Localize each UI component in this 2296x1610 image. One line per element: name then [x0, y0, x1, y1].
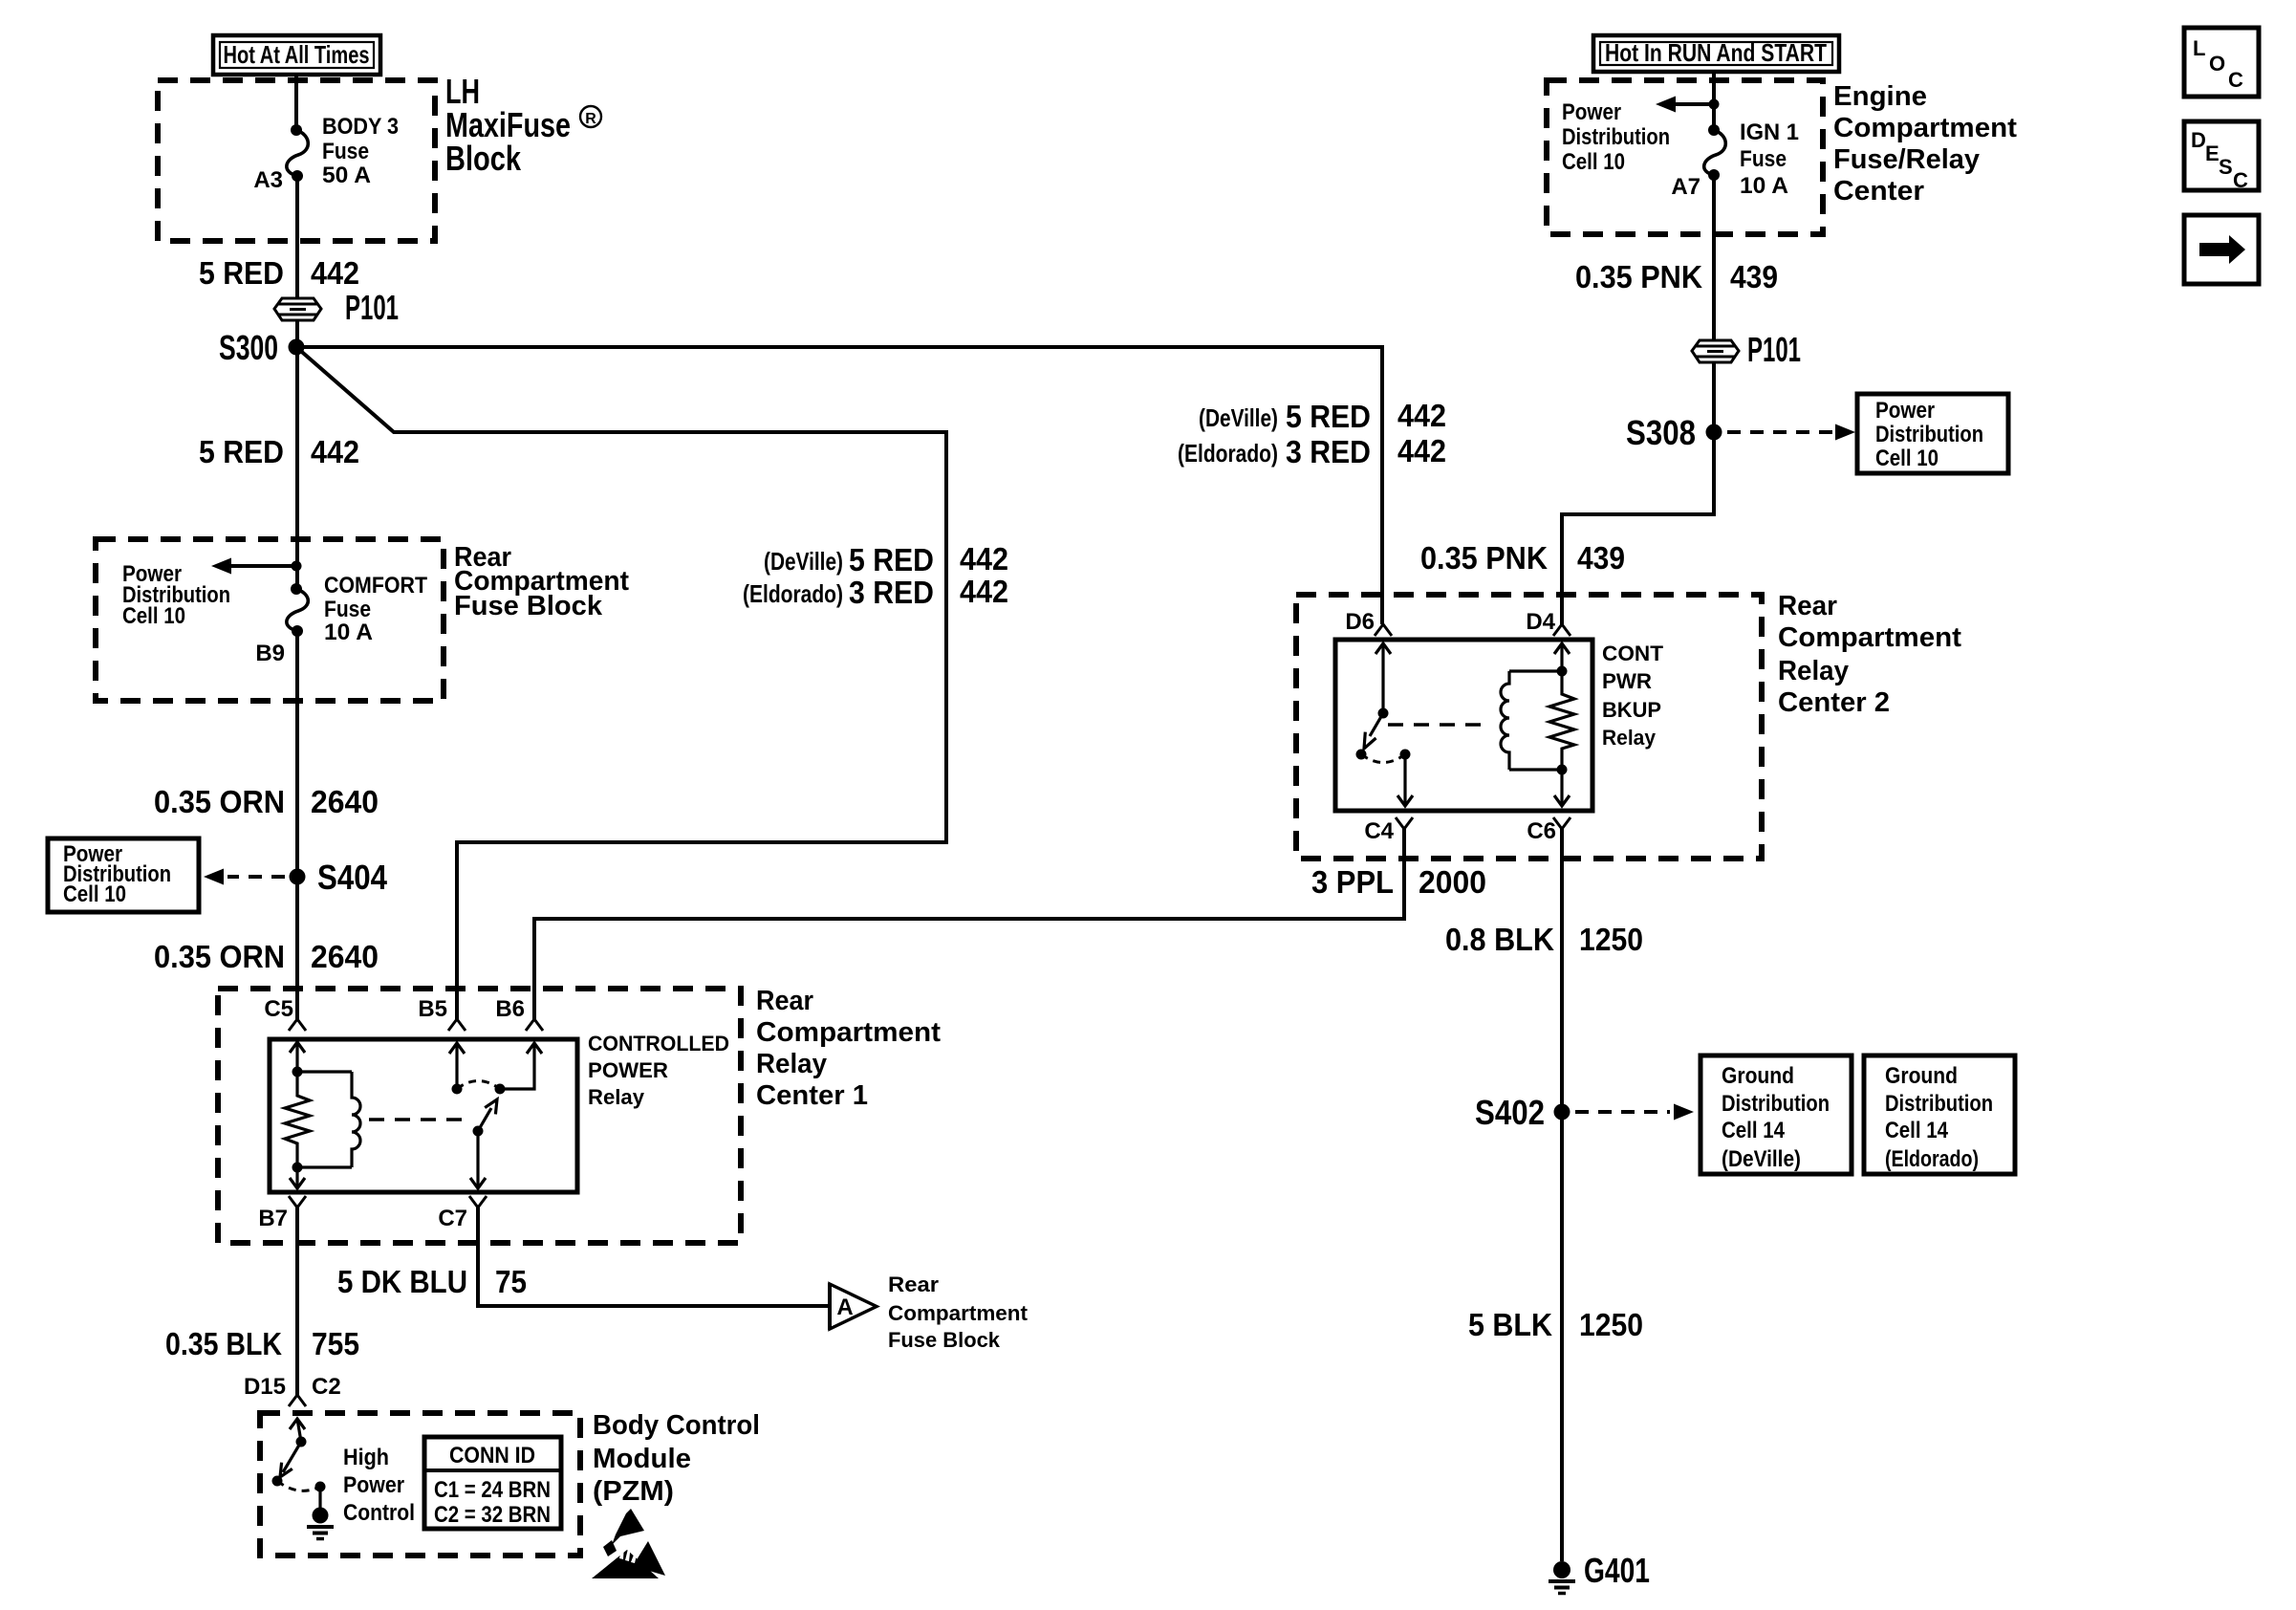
- wire fuse A3 to P101: [295, 176, 299, 298]
- svg-text:Engine: Engine: [1833, 81, 1927, 112]
- svg-text:442: 442: [960, 574, 1008, 609]
- wire P101 through S308 down and left to D4: [1562, 362, 1714, 624]
- dashed arrow S308 to Power Distribution box: [1727, 424, 1855, 441]
- svg-text:2640: 2640: [311, 784, 379, 819]
- node junction at fuse block feed: [292, 561, 302, 572]
- wire label (Eldorado) 3 RED 442 at D6 riser: [1178, 433, 1446, 469]
- corner box DESC: [2184, 121, 2259, 192]
- wire A7 down to P101: [1712, 175, 1716, 339]
- svg-text:3 RED: 3 RED: [1286, 434, 1371, 469]
- svg-text:Ground: Ground: [1722, 1063, 1794, 1089]
- svg-text:C4: C4: [1364, 818, 1394, 844]
- svg-text:0.35 ORN: 0.35 ORN: [154, 784, 285, 819]
- svg-text:3 RED: 3 RED: [849, 575, 934, 610]
- corner box forward arrow: [2184, 215, 2259, 284]
- label CONT PWR BKUP Relay: [1602, 642, 1664, 750]
- svg-text:Fuse Block: Fuse Block: [454, 591, 603, 621]
- wire from Hot In RUN And START into Engine Compartment center: [1712, 72, 1716, 130]
- svg-text:(DeVille): (DeVille): [764, 547, 843, 576]
- svg-text:CONT: CONT: [1602, 642, 1664, 665]
- svg-text:C1 = 24 BRN: C1 = 24 BRN: [434, 1477, 551, 1503]
- label Rear Compartment Relay Center 1: [756, 986, 941, 1111]
- svg-text:C5: C5: [264, 996, 293, 1022]
- relay K2 dashed throw arc: [1361, 754, 1405, 763]
- svg-text:High: High: [343, 1445, 389, 1470]
- relay K2 D4 leg arrow up: [1554, 643, 1570, 671]
- pin C6: [1527, 817, 1570, 844]
- svg-text:Relay: Relay: [1602, 726, 1657, 750]
- svg-text:Fuse: Fuse: [324, 597, 371, 622]
- relay K1 bottom rail: [297, 1165, 352, 1168]
- wire arrow to Power Distribution Cell 10 (in fuse block): [211, 558, 296, 575]
- label Power Distribution Cell 10 (in fuse block): [122, 561, 230, 629]
- relay K1 coil bottom junction: [292, 1163, 303, 1173]
- svg-text:442: 442: [311, 434, 359, 469]
- wire P101 to S300 and down to COMFORT fuse: [295, 320, 299, 589]
- svg-text:Compartment: Compartment: [1778, 622, 1961, 653]
- dashed arrow S404 to Power Distribution box: [204, 869, 285, 885]
- label LH MaxiFuse Block: [445, 72, 601, 178]
- fuse COMFORT 10A: [287, 583, 308, 637]
- BCM input arrow up at D15: [290, 1419, 307, 1447]
- svg-text:D4: D4: [1526, 609, 1555, 635]
- svg-text:5 RED: 5 RED: [849, 542, 934, 577]
- svg-text:442: 442: [1397, 398, 1446, 433]
- ESD sensitive symbol: [592, 1509, 665, 1578]
- svg-text:442: 442: [960, 541, 1008, 577]
- value label IGN 1 Fuse 10 A: [1740, 120, 1799, 199]
- label Rear Compartment Relay Center 2: [1778, 591, 1961, 718]
- svg-text:Center 1: Center 1: [756, 1080, 868, 1111]
- svg-text:Rear: Rear: [756, 986, 813, 1016]
- Body Control Module dashed box: [260, 1413, 580, 1556]
- svg-text:A7: A7: [1671, 174, 1700, 200]
- wire label 5 RED 442 (lower): [199, 434, 359, 469]
- svg-text:2640: 2640: [311, 939, 379, 974]
- label High Power Control: [343, 1445, 415, 1526]
- off-page triangle A to Rear Compartment Fuse Block: [830, 1283, 877, 1330]
- svg-text:Distribution: Distribution: [1562, 124, 1670, 150]
- svg-text:Distribution: Distribution: [1875, 422, 1983, 447]
- pin D4: [1526, 609, 1570, 636]
- svg-text:IGN 1: IGN 1: [1740, 120, 1799, 145]
- box Ground Distribution Cell 14 (DeVille): [1700, 1055, 1852, 1174]
- pin C7: [438, 1196, 487, 1231]
- svg-text:5 RED: 5 RED: [1286, 399, 1371, 434]
- svg-text:(PZM): (PZM): [593, 1476, 674, 1507]
- svg-text:A3: A3: [253, 167, 283, 193]
- ground G401: [1549, 1551, 1650, 1594]
- svg-text:C: C: [2228, 68, 2243, 92]
- relay K2 C6 leg arrow down: [1554, 770, 1570, 806]
- relay K2 switched leg arrow down to C4: [1397, 750, 1413, 807]
- BCM switched leg to internal ground: [315, 1482, 326, 1510]
- svg-text:Distribution: Distribution: [1885, 1091, 1993, 1117]
- wire label 0.35 PNK 439 (lower): [1420, 540, 1625, 576]
- svg-text:0.35 PNK: 0.35 PNK: [1575, 259, 1702, 294]
- svg-text:Compartment: Compartment: [888, 1301, 1029, 1325]
- svg-text:5 DK BLU: 5 DK BLU: [337, 1264, 467, 1299]
- svg-text:Center: Center: [1833, 176, 1924, 207]
- svg-text:(DeVille): (DeVille): [1722, 1146, 1801, 1172]
- LH MaxiFuse Block dashed box: [158, 80, 435, 241]
- svg-text:Relay: Relay: [756, 1049, 827, 1079]
- svg-text:B6: B6: [495, 996, 525, 1022]
- svg-text:E: E: [2205, 141, 2220, 165]
- relay K2 dashed actuation link: [1388, 723, 1491, 727]
- svg-text:C: C: [2233, 168, 2248, 192]
- svg-text:Hot In RUN And START: Hot In RUN And START: [1605, 38, 1827, 67]
- pin D15/C2 connector symbol: [289, 1395, 306, 1406]
- svg-text:BODY 3: BODY 3: [322, 114, 399, 140]
- svg-text:755: 755: [312, 1326, 359, 1361]
- svg-text:C7: C7: [438, 1206, 467, 1231]
- wire S300 to D6 (horizontal then down): [296, 347, 1382, 624]
- pin D6: [1345, 609, 1392, 636]
- svg-text:L: L: [2193, 36, 2205, 60]
- svg-text:C2: C2: [312, 1374, 341, 1400]
- svg-text:PWR: PWR: [1602, 669, 1652, 693]
- CONN ID table: [424, 1437, 561, 1529]
- svg-text:Fuse: Fuse: [1740, 146, 1787, 172]
- svg-text:3 PPL: 3 PPL: [1311, 864, 1394, 900]
- svg-text:10 A: 10 A: [324, 620, 373, 645]
- relay K1 switch common leg arrow down to C7: [470, 1126, 486, 1189]
- svg-text:Cell 10: Cell 10: [122, 603, 185, 629]
- svg-text:Relay: Relay: [1778, 656, 1849, 686]
- svg-text:Center 2: Center 2: [1778, 687, 1890, 718]
- wire label 0.35 BLK 755: [165, 1326, 359, 1361]
- svg-text:10 A: 10 A: [1740, 173, 1788, 199]
- svg-text:Module: Module: [593, 1444, 691, 1474]
- svg-text:D6: D6: [1345, 609, 1375, 635]
- wire label 0.8 BLK 1250: [1445, 922, 1643, 957]
- wire B7 down to BCM pin D15: [295, 1207, 299, 1395]
- svg-text:Compartment: Compartment: [756, 1017, 941, 1048]
- relay K2 resistor: [1549, 671, 1574, 770]
- svg-text:S: S: [2219, 155, 2233, 179]
- wire from Hot At All Times into LH MaxiFuse block: [294, 75, 298, 130]
- pin B6: [495, 996, 543, 1031]
- ground symbol inside BCM: [307, 1508, 334, 1539]
- svg-text:Power: Power: [1875, 398, 1935, 424]
- svg-text:B5: B5: [418, 996, 447, 1022]
- svg-text:1250: 1250: [1579, 1307, 1643, 1342]
- svg-text:Body Control: Body Control: [593, 1410, 760, 1441]
- wire label 5 RED 442 (upper): [199, 255, 359, 291]
- svg-text:0.35 BLK: 0.35 BLK: [165, 1326, 282, 1361]
- svg-text:442: 442: [1397, 433, 1446, 468]
- svg-text:(Eldorado): (Eldorado): [1178, 439, 1278, 468]
- svg-text:0.8 BLK: 0.8 BLK: [1445, 922, 1554, 957]
- node S300: [219, 328, 305, 367]
- svg-text:(Eldorado): (Eldorado): [743, 579, 843, 608]
- svg-text:BKUP: BKUP: [1602, 698, 1661, 722]
- value label BODY 3 Fuse 50 A: [322, 114, 399, 188]
- connector P101 (left): [274, 288, 399, 327]
- svg-text:Fuse/Relay: Fuse/Relay: [1833, 144, 1980, 175]
- wire label (DeVille) 5 RED 442 at D6 riser: [1199, 398, 1446, 434]
- wire label (DeVille) 5 RED 442 at B5 riser: [764, 541, 1008, 577]
- svg-text:P101: P101: [345, 288, 399, 327]
- svg-text:POWER: POWER: [588, 1058, 668, 1082]
- svg-text:B9: B9: [255, 641, 285, 666]
- svg-text:Cell 14: Cell 14: [1722, 1118, 1786, 1143]
- relay K1 coil branch arrow down to B7: [290, 1167, 305, 1188]
- wire label 0.35 PNK 439 (upper): [1575, 259, 1778, 294]
- svg-text:O: O: [2209, 52, 2225, 76]
- svg-text:439: 439: [1577, 540, 1625, 576]
- pin C5: [264, 996, 306, 1031]
- svg-text:S402: S402: [1475, 1093, 1545, 1132]
- wire label 5 DK BLU 75: [337, 1264, 527, 1299]
- svg-text:Cell 10: Cell 10: [1562, 149, 1625, 175]
- svg-text:2000: 2000: [1419, 864, 1486, 900]
- svg-text:(Eldorado): (Eldorado): [1885, 1146, 1979, 1172]
- relay K2 common D6 leg arrow up: [1375, 643, 1391, 719]
- relay K2 NC contact dot: [1356, 750, 1367, 760]
- pin label D15 / C2: [244, 1374, 341, 1400]
- box Ground Distribution Cell 14 (Eldorado): [1864, 1055, 2015, 1174]
- label CONTROLLED POWER Relay: [588, 1032, 729, 1109]
- pin B7: [258, 1196, 306, 1231]
- svg-text:Fuse: Fuse: [322, 139, 369, 164]
- relay K2 switch arm: [1364, 713, 1383, 749]
- Rear Compartment Relay Center 2 dashed box: [1296, 595, 1762, 859]
- relay K1 switch arm: [478, 1099, 497, 1131]
- relay K2 CONT PWR BKUP Relay box: [1335, 640, 1592, 811]
- relay K1 coil top junction: [292, 1067, 303, 1077]
- pin B5: [418, 996, 466, 1031]
- svg-text:Power: Power: [1562, 99, 1621, 125]
- node S404: [290, 858, 388, 897]
- wire label (Eldorado) 3 RED 442 at B5 riser: [743, 574, 1008, 610]
- Engine Compartment Fuse/Relay Center dashed box: [1547, 80, 1823, 234]
- svg-text:S308: S308: [1626, 413, 1696, 452]
- svg-text:CONTROLLED: CONTROLLED: [588, 1032, 729, 1055]
- svg-text:0.35 PNK: 0.35 PNK: [1420, 540, 1548, 576]
- Rear Compartment Relay Center 1 dashed box: [218, 989, 741, 1243]
- relay K1 CONTROLLED POWER Relay box: [270, 1039, 577, 1192]
- svg-text:Fuse Block: Fuse Block: [888, 1328, 1001, 1352]
- svg-text:(DeVille): (DeVille): [1199, 403, 1278, 432]
- wire arrow to Power Distribution Cell 10 (engine box): [1656, 97, 1714, 113]
- svg-text:A: A: [836, 1295, 853, 1320]
- svg-text:CONN ID: CONN ID: [449, 1443, 535, 1469]
- Rear Compartment Fuse Block dashed box: [96, 539, 444, 701]
- svg-text:B7: B7: [258, 1206, 288, 1231]
- label Body Control Module (PZM): [593, 1410, 760, 1507]
- svg-text:C6: C6: [1527, 818, 1556, 844]
- svg-text:Cell 10: Cell 10: [63, 881, 126, 907]
- relay K2 coil: [1501, 671, 1509, 770]
- relay K1 coil: [352, 1072, 360, 1167]
- pin C4: [1364, 817, 1413, 844]
- svg-text:S300: S300: [219, 328, 278, 367]
- node S402: [1475, 1093, 1570, 1132]
- svg-text:1250: 1250: [1579, 922, 1643, 957]
- svg-text:R: R: [585, 111, 596, 127]
- label Rear Compartment Fuse Block: [454, 542, 629, 621]
- label Engine Compartment Fuse/Relay Center: [1833, 81, 2017, 207]
- wire C4 down then left to B6 riser: [534, 829, 1404, 1019]
- wire label 0.35 ORN 2640 (lower): [154, 939, 379, 974]
- relay K1 resistor: [285, 1072, 310, 1167]
- fuse IGN 1 10A: [1704, 124, 1726, 181]
- svg-text:D: D: [2191, 128, 2206, 152]
- svg-text:P101: P101: [1747, 330, 1801, 369]
- box Power Distribution Cell 10 (S404): [48, 838, 199, 912]
- relay K1 top rail: [297, 1070, 352, 1073]
- wire C7 down and right to triangle A: [478, 1207, 830, 1306]
- corner box LOC: [2184, 28, 2259, 97]
- label Power Distribution Cell 10 (engine box): [1562, 99, 1670, 175]
- relay K1 NO contact to B6 arrow up: [495, 1043, 543, 1095]
- svg-text:75: 75: [495, 1264, 527, 1299]
- svg-text:Cell 14: Cell 14: [1885, 1118, 1949, 1143]
- dashed arrow S402 to Ground Distribution boxes: [1575, 1104, 1694, 1120]
- node junction at engine box feed: [1709, 99, 1720, 110]
- svg-text:50 A: 50 A: [322, 163, 371, 188]
- fuse BODY 3 50A: [287, 124, 308, 182]
- node S308: [1626, 413, 1722, 452]
- relay K2 coil top junction: [1557, 666, 1568, 677]
- BCM switch arm High Power Control: [272, 1442, 302, 1487]
- svg-text:D15: D15: [244, 1374, 286, 1400]
- svg-text:Compartment: Compartment: [1833, 113, 2017, 143]
- relay K2 bottom rail: [1509, 768, 1562, 771]
- svg-text:Power: Power: [343, 1472, 404, 1498]
- wire C6 down to G401: [1560, 829, 1564, 1561]
- relay K2 top rail: [1509, 669, 1562, 672]
- label box Hot At All Times: [213, 35, 380, 75]
- relay K2 coil bottom junction: [1557, 765, 1568, 775]
- svg-text:COMFORT: COMFORT: [324, 573, 427, 598]
- label box Hot In RUN And START: [1593, 35, 1839, 72]
- svg-text:Relay: Relay: [588, 1085, 645, 1109]
- svg-text:Rear: Rear: [888, 1273, 939, 1296]
- svg-text:439: 439: [1730, 259, 1778, 294]
- svg-text:Distribution: Distribution: [1722, 1091, 1830, 1117]
- svg-text:0.35 ORN: 0.35 ORN: [154, 939, 285, 974]
- box Power Distribution Cell 10 (S308): [1857, 394, 2008, 473]
- connector P101 (right): [1692, 330, 1801, 369]
- svg-text:Control: Control: [343, 1500, 415, 1526]
- value label COMFORT Fuse 10 A: [324, 573, 427, 645]
- wire label 0.35 ORN 2640 (upper): [154, 784, 379, 819]
- relay K1 dashed actuation link: [369, 1118, 472, 1121]
- wire label 5 BLK 1250: [1468, 1307, 1643, 1342]
- svg-text:5 RED: 5 RED: [199, 434, 284, 469]
- svg-text:Cell 10: Cell 10: [1875, 446, 1939, 471]
- svg-text:5 BLK: 5 BLK: [1468, 1307, 1552, 1342]
- svg-text:C2 = 32 BRN: C2 = 32 BRN: [434, 1502, 551, 1528]
- svg-text:Block: Block: [445, 139, 522, 178]
- svg-text:Ground: Ground: [1885, 1063, 1958, 1089]
- svg-text:Hot At All Times: Hot At All Times: [224, 40, 370, 69]
- BCM dashed throw arc: [277, 1481, 320, 1490]
- wire B9 down to C5 pin: [295, 631, 299, 1019]
- svg-text:G401: G401: [1584, 1551, 1650, 1590]
- relay K1 coil branch arrow up: [290, 1042, 305, 1072]
- svg-text:5 RED: 5 RED: [199, 255, 284, 291]
- svg-text:Rear: Rear: [1778, 591, 1837, 621]
- wire label 3 PPL 2000: [1311, 864, 1486, 900]
- wire S300 diagonal branch to B5 riser: [296, 347, 946, 1019]
- relay K1 common B5 leg arrow up: [449, 1043, 465, 1095]
- svg-text:442: 442: [311, 255, 359, 291]
- label Rear Compartment Fuse Block (at triangle A): [888, 1273, 1029, 1352]
- relay K1 dashed throw arc: [457, 1081, 500, 1090]
- svg-text:S404: S404: [317, 858, 387, 897]
